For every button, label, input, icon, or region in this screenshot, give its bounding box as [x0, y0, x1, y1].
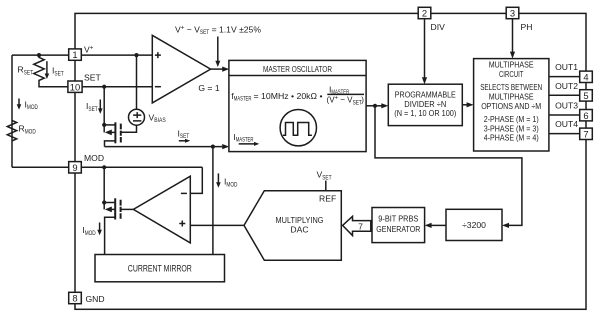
pin 1 V+: [69, 49, 82, 60]
pin 7 OUT4: [580, 128, 593, 139]
svg-text:G = 1: G = 1: [198, 83, 219, 93]
svg-text:3: 3: [510, 8, 515, 19]
svg-text:OPTIONS AND ÷M: OPTIONS AND ÷M: [481, 101, 541, 111]
svg-text:CURRENT MIRROR: CURRENT MIRROR: [128, 262, 192, 273]
pin 2 DIV: [418, 7, 431, 18]
wire VBIAS to Q1 gate: [121, 125, 137, 132]
current label ISET by RSET: [46, 61, 48, 75]
svg-text:GND: GND: [86, 294, 105, 304]
wire V+ rail from RSET node through pin 1 to op-amp + input: [12, 54, 152, 56]
node V+ / VBIAS junction: [134, 53, 138, 57]
wire IMOD branch down to current mirror: [212, 147, 214, 255]
pin 4 OUT1: [580, 71, 593, 82]
svg-text:8: 8: [72, 293, 77, 304]
current mirror block: [95, 255, 225, 282]
wire OUT4: [549, 133, 580, 135]
svg-text:1: 1: [72, 49, 77, 60]
pin 5 OUT2: [580, 90, 593, 101]
svg-text:MASTER OSCILLATOR: MASTER OSCILLATOR: [263, 64, 332, 74]
bus arrow 7-bit from PRBS to DAC: [343, 216, 371, 235]
voltage source VBIAS: [129, 109, 145, 125]
svg-text:÷3200: ÷3200: [462, 220, 486, 230]
svg-text:4: 4: [583, 71, 588, 82]
wire Q2 gate to lower op-amp output: [121, 208, 134, 210]
wire external left rail down to RMOD: [11, 55, 13, 167]
op-amp U2 (modulation buffer): [133, 176, 190, 243]
svg-text:7: 7: [358, 221, 363, 231]
node feedback tap: [373, 104, 377, 108]
svg-text:(N = 1, 10 OR 100): (N = 1, 10 OR 100): [394, 108, 456, 118]
resistor RSET: [34, 55, 44, 80]
svg-text:PH: PH: [521, 22, 533, 32]
wire OUT1: [549, 76, 580, 78]
node RSET top junction: [37, 53, 41, 57]
svg-text:9-BIT PRBS: 9-BIT PRBS: [378, 214, 418, 224]
svg-text:10: 10: [70, 81, 80, 92]
wire pin 2 to divider: [424, 19, 426, 78]
svg-text:OUT1: OUT1: [555, 62, 578, 72]
svg-text:GENERATOR: GENERATOR: [376, 224, 420, 234]
wire MOD down to transistor Q2: [103, 167, 105, 209]
wire SET down to transistor Q1: [103, 87, 105, 133]
oscillator symbol (circle with square wave): [280, 110, 316, 146]
divide-by-3200 block: [446, 209, 502, 240]
programmable divider block: [388, 84, 462, 125]
svg-text:DIV: DIV: [431, 22, 446, 32]
IC boundary: [75, 13, 586, 309]
node ISET / IMOD branch junction: [211, 145, 215, 149]
svg-text:OUT2: OUT2: [555, 81, 578, 91]
transistor Q2 (PMOS, MOD): [114, 198, 116, 219]
pin 10 SET: [68, 81, 82, 92]
wire MOD to lower op-amp - input: [190, 167, 202, 193]
svg-text:OUT3: OUT3: [555, 101, 578, 111]
wire SET line from RSET bottom through pin 10 to op-amp - input: [39, 80, 152, 87]
current label IMOD on left rail: [18, 99, 20, 106]
svg-text:2: 2: [422, 8, 427, 19]
node SET junction at x=104: [102, 85, 106, 89]
svg-text:REF: REF: [319, 194, 336, 204]
wire op-amp output to master oscillator: [211, 68, 223, 70]
wire divide-by-3200 to PRBS generator: [431, 224, 446, 226]
current label IMOD at branch: [217, 173, 219, 183]
svg-text:MOD: MOD: [84, 153, 104, 163]
svg-text:SET: SET: [84, 73, 101, 83]
node MOD junction at x=104: [102, 165, 106, 169]
svg-text:CIRCUIT: CIRCUIT: [499, 69, 524, 79]
multiplying DAC block: [244, 191, 341, 261]
wire divider to multiphase circuit: [462, 104, 467, 106]
wire feedback to divide-by-3200: [375, 106, 522, 226]
transistor Q1 (PMOS, SET current mirror): [114, 122, 116, 143]
pin 3 PH: [506, 7, 519, 18]
svg-text:7: 7: [583, 128, 588, 139]
wire oscillator output to divider: [366, 105, 382, 107]
pin 9 MOD: [69, 162, 82, 173]
svg-text:DAC: DAC: [290, 225, 308, 235]
wire VSET to DAC REF input: [325, 181, 327, 191]
svg-text:= 10MHz • 20kΩ •: = 10MHz • 20kΩ •: [254, 91, 323, 101]
svg-text:6: 6: [583, 110, 588, 121]
wire ISET to master oscillator: [105, 146, 223, 148]
svg-text:MULTIPLYING: MULTIPLYING: [276, 215, 324, 225]
wire OUT3: [549, 114, 580, 116]
multiphase circuit block: [474, 59, 549, 151]
svg-text:OUT4: OUT4: [555, 119, 578, 129]
wire OUT2: [549, 94, 580, 96]
svg-text:9: 9: [72, 162, 77, 173]
wire V+ down to VBIAS source: [136, 55, 138, 109]
wire U2 + input to DAC output line: [190, 224, 244, 226]
wire MOD line from RMOD through pin 9 to lower op-amp branch: [12, 166, 202, 168]
pin 6 OUT3: [580, 110, 593, 121]
pin 8 GND: [69, 292, 82, 303]
resistor RMOD: [7, 120, 16, 141]
master oscillator block: [229, 60, 366, 151]
svg-text:4-PHASE (M = 4): 4-PHASE (M = 4): [484, 133, 539, 143]
wire pin 3 to multiphase circuit: [512, 19, 514, 53]
op-amp U1 G=1: [152, 35, 210, 103]
9-bit PRBS generator block: [372, 208, 425, 243]
svg-text:5: 5: [583, 90, 588, 101]
